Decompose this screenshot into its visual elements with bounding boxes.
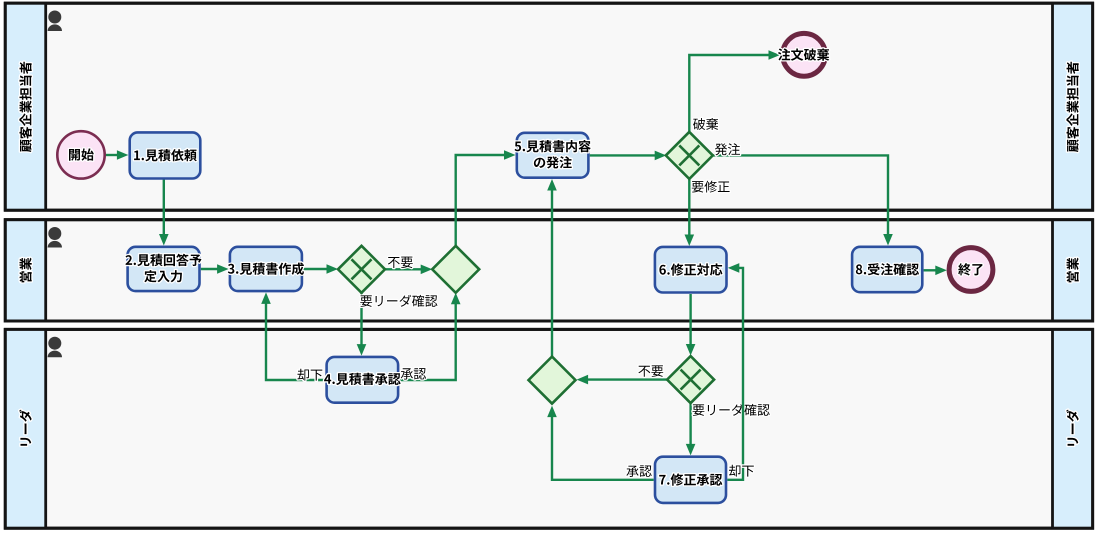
wire gateway3 down to task7 labelled 要リーダ確認	[686, 403, 696, 455]
gateway3 exclusive X	[667, 356, 714, 403]
task 7.修正承認	[655, 457, 726, 503]
wire gateway1 to merge1 labelled 不要	[385, 265, 432, 275]
wire gateway1 down to task4 labelled 要リーダ確認	[357, 293, 367, 356]
end event 注文破棄	[778, 33, 829, 76]
lane 営業	[5, 220, 1092, 321]
lane リーダ	[5, 329, 1092, 528]
wire gateway2 down to task6 labelled 要修正	[685, 179, 695, 246]
lane person icon 営業	[48, 227, 62, 248]
task 5.見積書内容の発注	[515, 133, 591, 178]
lane label right 顧客企業担当者	[1066, 62, 1078, 152]
wire task6 down to gateway3	[686, 294, 696, 356]
lane person icon リーダ	[48, 337, 62, 358]
wire task8 to end event 終了	[924, 266, 947, 276]
wire task2 to task3	[201, 264, 229, 274]
lane label left 営業	[19, 258, 31, 283]
lane label left リーダ	[19, 410, 32, 446]
task 1.見積依頼	[130, 132, 201, 178]
wire gateway2 right to task8 labelled 発注	[713, 155, 893, 245]
label 破棄	[693, 118, 718, 130]
wire task5 to gateway2	[590, 151, 667, 161]
lane label left 顧客企業担当者	[19, 62, 31, 152]
task 4.見積書承認	[324, 357, 401, 403]
label 不要	[388, 257, 413, 269]
gateway2 exclusive X	[666, 132, 713, 179]
label 却下 right of task7	[729, 465, 754, 477]
label 却下 left of task4	[298, 369, 323, 381]
wire task3 to gateway1	[303, 264, 338, 274]
gateway1 exclusive X	[338, 246, 385, 293]
label 発注	[715, 143, 740, 155]
wire task1 down to task2	[159, 179, 169, 246]
task 2.見積回答予定入力	[126, 247, 202, 291]
label 要リーダ確認 below gateway3	[693, 404, 770, 416]
wire merge2 up to task5	[547, 179, 557, 357]
wire task4 shounin to merge1 labelled 承認	[399, 293, 460, 380]
task 8.受注確認	[852, 247, 922, 292]
merge gateway1	[432, 246, 479, 293]
wire gateway3 to merge2 labelled 不要	[577, 375, 667, 385]
start event 開始	[57, 131, 104, 178]
task 6.修正対応	[655, 247, 727, 293]
merge gateway2 lane3	[529, 357, 576, 404]
lane label right リーダ	[1066, 410, 1079, 446]
wire task4 kyakka to task3 labelled 却下	[261, 292, 325, 380]
task 3.見積書作成	[228, 247, 304, 291]
label 要リーダ確認	[360, 295, 437, 307]
label 承認 left of task7	[626, 465, 651, 477]
wire start to task1	[103, 150, 128, 160]
end event 終了	[949, 248, 993, 292]
label 承認 right of task4	[401, 368, 426, 380]
label 要修正	[692, 181, 730, 193]
lane label right 営業	[1066, 258, 1078, 283]
wire task7 kyakka to task6 labelled 却下	[727, 263, 743, 480]
label 不要 left of gateway3	[638, 365, 663, 377]
wire task7 shounin to merge2 labelled 承認	[547, 406, 654, 480]
wire merge1 up to task5	[456, 150, 516, 246]
wire gateway2 up to end event 注文破棄 labelled 破棄	[689, 50, 780, 132]
lane person icon 顧客企業担当者	[48, 11, 62, 32]
lane 顧客企業担当者	[5, 3, 1092, 210]
